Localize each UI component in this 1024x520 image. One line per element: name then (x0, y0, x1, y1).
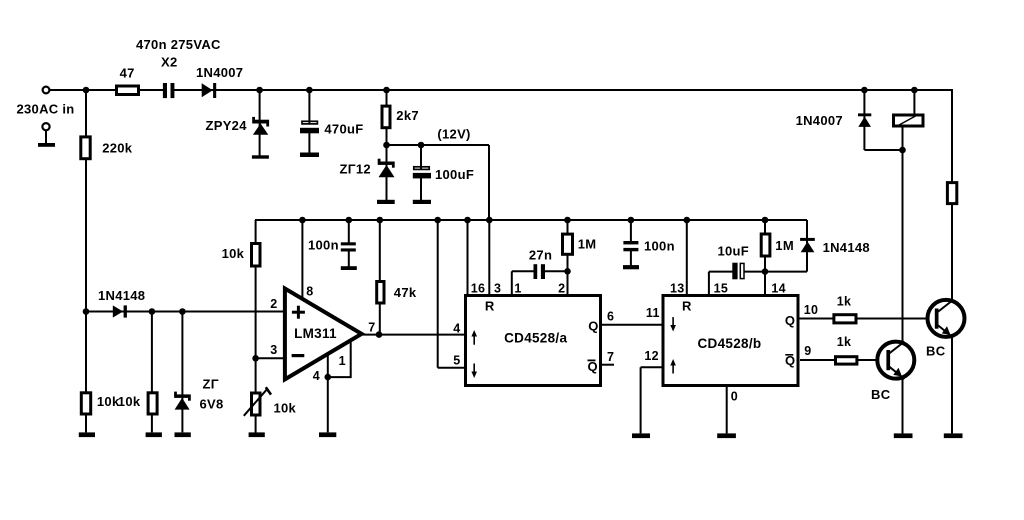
junction node dots (83, 87, 918, 381)
svg-text:470uF: 470uF (324, 121, 363, 136)
svg-text:1k: 1k (837, 294, 852, 308)
svg-text:14: 14 (771, 281, 786, 295)
svg-text:3: 3 (270, 343, 277, 357)
svg-text:27n: 27n (529, 248, 552, 263)
svg-text:11: 11 (646, 306, 660, 320)
wire top rail right corner down to Q1 collector (951, 89, 953, 300)
op-amp plus input mark (292, 306, 305, 319)
svg-text:10: 10 (804, 303, 819, 317)
resistor 10k (rail, left) (252, 244, 261, 267)
svg-text:470n 275VAC: 470n 275VAC (136, 37, 221, 52)
svg-text:100uF: 100uF (435, 167, 474, 182)
wire 100uF branch vertical (420, 145, 422, 200)
resistor 10k RA (81, 393, 90, 414)
svg-text:3: 3 (494, 281, 501, 295)
potentiometer 10k (244, 387, 271, 416)
diode 1N4148 D2 (node A) (113, 305, 127, 317)
wire pin15 to 10uF to pin14 horizontal (709, 271, 765, 273)
wire op-amp pin4 vertical to ground (327, 353, 329, 432)
capacitor X2 (163, 82, 175, 99)
svg-text:15: 15 (714, 281, 729, 295)
svg-text:100n: 100n (308, 238, 339, 253)
ground 10k RB (146, 432, 162, 437)
ground potentiometer (249, 432, 265, 437)
svg-text:6: 6 (607, 309, 614, 323)
wire relay bottom lead (902, 127, 904, 150)
transistor Q1 BC (928, 300, 965, 338)
ground op-amp pin4 (319, 432, 336, 437)
svg-text:1M: 1M (775, 238, 794, 253)
svg-text:1: 1 (339, 354, 346, 368)
wire 12V down to supply rail (488, 145, 490, 220)
svg-text:CD4528/a: CD4528/a (504, 331, 567, 346)
svg-text:0: 0 (731, 390, 738, 404)
svg-text:9: 9 (804, 344, 811, 358)
wire relay top lead (913, 90, 915, 114)
wire op-amp pin3 horizontal (256, 357, 286, 359)
wire pin1 chip-a vertical (511, 271, 513, 294)
ground chip-b pin12 (632, 433, 650, 438)
svg-text:1M: 1M (578, 236, 597, 251)
svg-text:ZPY24: ZPY24 (206, 118, 248, 133)
svg-text:10k: 10k (97, 394, 120, 409)
wire input terminal 2 lead (45, 131, 47, 143)
label chip-b Qbar (785, 353, 795, 368)
svg-text:5: 5 (453, 354, 460, 368)
wire 1M1 / pin2 chip-a vertical (567, 220, 569, 294)
svg-text:ZΓ: ZΓ (203, 377, 219, 392)
wire Q2 emitter to ground (902, 378, 904, 433)
op-amp LM311 U1 (285, 289, 362, 380)
wire ZPY24 branch vertical (259, 90, 261, 156)
capacitor 100n C1 (341, 242, 357, 251)
svg-text:Q: Q (785, 313, 795, 328)
wire relay junction down to Q2 collector (902, 150, 904, 342)
wire 220k branch vertical (85, 90, 87, 312)
resistor 1k R6 (834, 315, 856, 323)
wire 1N4007-2 vertical (863, 90, 865, 150)
resistor 1k R7 (836, 357, 857, 364)
svg-text:16: 16 (471, 281, 486, 295)
svg-text:12: 12 (644, 349, 659, 363)
label chip-a Qbar (588, 359, 598, 374)
zener ZF 6V8 (174, 392, 191, 410)
svg-text:10uF: 10uF (718, 244, 750, 259)
svg-text:6V8: 6V8 (200, 397, 224, 412)
diode 1N4148 D4 (vertical) (800, 238, 815, 252)
wire pin13 chip-b vertical (686, 220, 688, 294)
ground ZF12 (377, 200, 395, 204)
svg-text:100n: 100n (644, 239, 675, 254)
svg-text:1k: 1k (837, 335, 852, 349)
wire pin1 to 27n to pin2 horizontal (512, 270, 568, 272)
svg-text:2k7: 2k7 (396, 108, 419, 123)
wire diode to relay junction horizontal (864, 149, 902, 151)
capacitor 27n (534, 264, 546, 280)
svg-text:ZΓ12: ZΓ12 (340, 162, 371, 177)
wire pin15 chip-b vertical (708, 272, 710, 294)
svg-text:CD4528/b: CD4528/b (698, 336, 762, 351)
wire 6V8 branch vertical (181, 312, 183, 433)
terminal 230AC in bottom (42, 123, 49, 130)
svg-text:R: R (682, 298, 692, 313)
zener ZPY24 (252, 117, 269, 135)
svg-text:8: 8 (306, 285, 313, 299)
wire 10k-A branch vertical (85, 312, 87, 433)
resistor right (relay branch) (947, 183, 956, 204)
ground ZPY24 (252, 155, 269, 158)
wire chip-a Qbar stub pin7 (602, 364, 614, 366)
ground 470uF (300, 153, 319, 158)
capacitor 100uF (413, 167, 431, 179)
svg-text:4: 4 (453, 322, 460, 336)
wire supply rail (255, 219, 807, 221)
wire 12V horizontal (387, 144, 490, 146)
wire pin16 vertical (467, 220, 469, 294)
svg-text:R: R (485, 298, 495, 313)
resistor 47k (377, 282, 384, 304)
ground 100n C1 (341, 266, 357, 270)
chip CD4528/b arrow up (pin12) (670, 359, 676, 374)
ground Q1 emitter (944, 433, 963, 438)
wire chip-b Qbar pin9 to transistor Q2 base (800, 359, 887, 361)
wire node A horizontal (1N4148 row) (86, 311, 285, 313)
svg-text:(12V): (12V) (437, 127, 470, 142)
wire 470uF branch vertical (308, 90, 310, 153)
svg-text:10k: 10k (222, 246, 245, 261)
ground 100n C2 (623, 265, 639, 269)
svg-text:47k: 47k (394, 285, 417, 300)
wire op-amp pin1 stub (328, 341, 351, 377)
terminal 230AC in top (43, 87, 50, 94)
svg-text:Q: Q (588, 318, 598, 333)
svg-text:7: 7 (607, 350, 614, 364)
wire chip-b pin0 vertical to ground (726, 387, 728, 433)
wire 1N4148-2 vertical (806, 220, 808, 272)
wire 100n1 vertical (348, 220, 350, 267)
wire chip-a Q to chip-b pin11 (602, 324, 662, 326)
svg-text:7: 7 (368, 321, 375, 335)
wire 1M2 / pin14 chip-b vertical (764, 220, 766, 294)
wire rail to pin5 vertical (437, 220, 439, 368)
wire chip-b Q pin10 to transistor Q1 base (800, 318, 936, 320)
wire 100n2 vertical (630, 220, 632, 266)
ground 6V8 (175, 432, 191, 437)
ground 100uF (413, 200, 431, 204)
wire op-amp pin8 vertical (301, 220, 303, 299)
wire 10k-B branch vertical (151, 312, 153, 433)
wire 47k vertical (379, 220, 381, 335)
wire op-amp output to chip-a pin4 (363, 334, 464, 336)
wire pin3 chip-a vertical (488, 220, 490, 294)
chip CD4528/a arrow up (pin4) (471, 330, 477, 345)
svg-text:220k: 220k (102, 140, 133, 155)
ground chip-b pin0 (717, 433, 736, 438)
svg-text:BC: BC (926, 344, 946, 359)
svg-text:1N4148: 1N4148 (98, 288, 145, 303)
svg-text:47: 47 (120, 65, 135, 80)
svg-text:230AC in: 230AC in (17, 101, 75, 116)
capacitor 100n C2 (623, 241, 638, 251)
transistor Q2 BC (877, 342, 914, 380)
relay K1 (894, 114, 924, 126)
diode 1N4007 D1 (202, 83, 217, 98)
wire 10k left branch from rail down through pot (255, 220, 257, 434)
wire 2k7/ZF12 branch vertical (386, 90, 388, 200)
wire chip-b pin12 vertical to ground (640, 367, 642, 433)
chip CD4528/b U3 (663, 296, 798, 386)
svg-text:BC: BC (871, 387, 891, 402)
svg-text:10k: 10k (118, 394, 141, 409)
capacitor 470uF (300, 121, 319, 133)
wire pin5 horizontal (438, 367, 464, 369)
svg-text:LM311: LM311 (294, 326, 337, 341)
diode 1N4007 D3 (relay clamp) (858, 113, 871, 127)
resistor 1M R5 (761, 234, 770, 256)
chip CD4528/b arrow down (pin11) (670, 317, 676, 331)
chip CD4528/a arrow down (pin5) (471, 364, 477, 379)
resistor 2k7 (382, 106, 390, 128)
svg-text:1N4007: 1N4007 (796, 113, 843, 128)
svg-text:10k: 10k (274, 401, 297, 416)
wire 1N4148-2 horizontal (765, 271, 807, 273)
svg-text:1N4007: 1N4007 (196, 65, 243, 80)
svg-text:2: 2 (558, 281, 565, 295)
wire chip-b pin12 horizontal (641, 366, 662, 368)
capacitor 10uF (732, 263, 744, 280)
resistor 1M R4 (563, 234, 573, 254)
wire top rail (50, 89, 952, 91)
svg-text:1: 1 (514, 281, 521, 295)
resistor 10k RB (148, 393, 157, 414)
ground Q2 emitter (894, 433, 913, 438)
ground terminal 2 (38, 143, 55, 147)
ground 10k RA (79, 432, 95, 437)
svg-text:4: 4 (313, 369, 320, 383)
chip CD4528/a U2 (466, 296, 601, 386)
svg-text:13: 13 (670, 281, 685, 295)
wire Q1 emitter to ground (951, 337, 953, 433)
op-amp minus input mark (292, 354, 305, 357)
resistor 47 (117, 86, 139, 95)
svg-text:2: 2 (270, 297, 277, 311)
svg-text:1N4148: 1N4148 (823, 240, 870, 255)
resistor 220k (81, 137, 90, 159)
svg-text:X2: X2 (161, 54, 178, 69)
zener ZF12 (378, 159, 395, 178)
